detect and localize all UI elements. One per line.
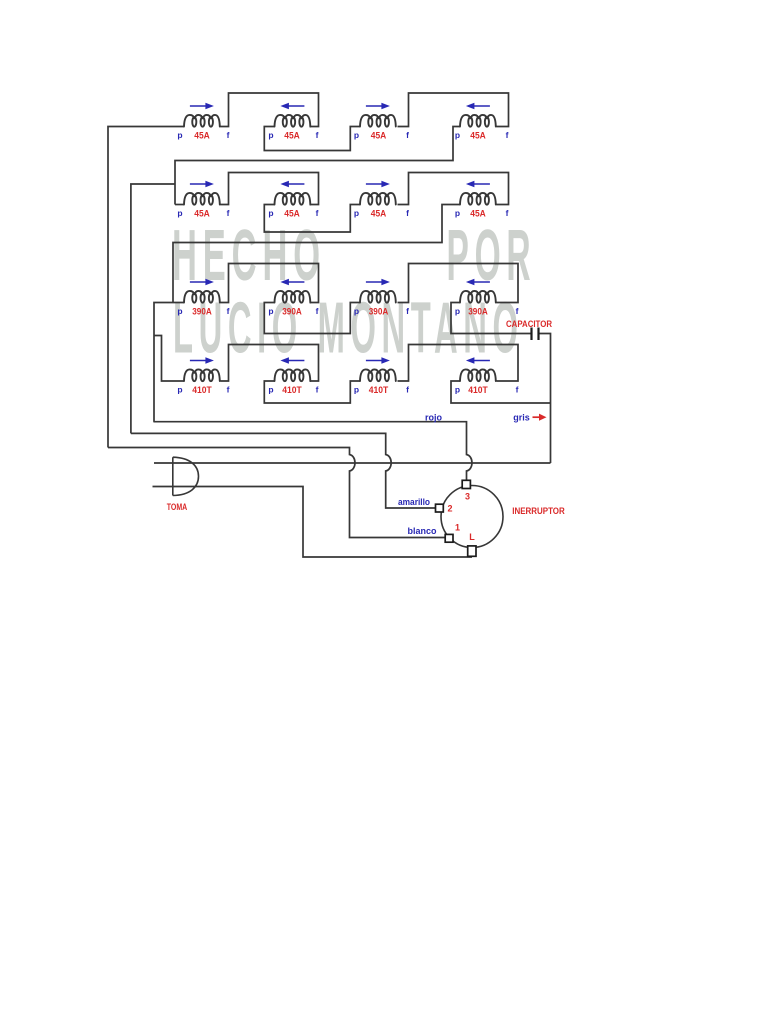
current direction arrow over L44 [466, 357, 490, 364]
svg-text:p: p [268, 208, 273, 218]
svg-text:2: 2 [447, 504, 452, 514]
wire: row2 coil4.p down-bus left and down to row3 coil1.p [173, 205, 460, 303]
wire: row1 coil1.f up and over to coil2.f [221, 93, 319, 127]
plug TOMA body [173, 457, 199, 495]
inductor coil row3 L31 (390A) [184, 291, 220, 303]
wire: row4 coil1.f up and over to coil2.f [221, 345, 319, 382]
inductor coil row2 L22 (45A) [275, 193, 311, 205]
current direction arrow over L14 [466, 103, 490, 110]
wire: capacitor right plate to gris vertical down to plug prong line [538, 334, 551, 464]
svg-text:390A: 390A [468, 306, 488, 316]
wire: row1 coil4.p down-bus left and down to row2 coil1.p [175, 127, 460, 205]
inductor coil row1 L11 (45A) [184, 115, 220, 127]
current direction arrow over L23 [366, 181, 390, 188]
wire: row2 coil1 baseline lead [175, 204, 184, 206]
switch terminal 3 [462, 480, 470, 488]
svg-text:f: f [506, 208, 509, 218]
svg-text:rojo: rojo [425, 413, 443, 423]
svg-text:3: 3 [465, 492, 470, 502]
svg-text:f: f [316, 208, 319, 218]
inductor coil row4 L43 (410T) [360, 369, 396, 381]
svg-text:amarillo: amarillo [398, 497, 430, 507]
capacitor C1 plates [532, 328, 539, 341]
svg-text:INERRUPTOR: INERRUPTOR [512, 506, 565, 516]
wire: row3/row4 junction stub to row4 coil1.p [154, 336, 184, 382]
wire: row3 coil2.p down-under to coil3.p [264, 303, 360, 334]
current direction arrow over L32 [280, 279, 304, 286]
svg-text:f: f [316, 384, 319, 394]
svg-text:p: p [354, 208, 359, 218]
svg-text:HECHO: HECHO [172, 215, 326, 295]
inductor coil row1 L14 (45A) [460, 115, 496, 127]
svg-text:f: f [516, 384, 519, 394]
svg-text:410T: 410T [369, 385, 389, 395]
svg-text:gris: gris [513, 413, 530, 423]
svg-text:45A: 45A [371, 208, 387, 218]
svg-text:f: f [316, 306, 319, 316]
current direction arrow over L34 [466, 279, 490, 286]
wire: row3 coil1.f up and over to coil2.f [221, 264, 319, 303]
current direction arrow over L42 [280, 357, 304, 364]
inductor coil row3 L32 (390A) [275, 291, 311, 303]
wire: row1 left lead from coil1.p to left vertical [108, 127, 184, 448]
svg-text:p: p [177, 384, 182, 394]
wire: amarillo line from left vertical to switch terminal 2 with hop [131, 433, 436, 508]
svg-text:CAPACITOR: CAPACITOR [506, 319, 552, 329]
svg-text:410T: 410T [192, 385, 212, 395]
svg-text:410T: 410T [468, 385, 488, 395]
svg-text:390A: 390A [282, 306, 302, 316]
svg-text:p: p [354, 384, 359, 394]
svg-text:p: p [177, 306, 182, 316]
svg-text:p: p [455, 384, 460, 394]
svg-text:p: p [455, 306, 460, 316]
switch terminal 2 [436, 504, 444, 512]
wire: row2 coil2.p down-under to coil3.p [264, 205, 360, 233]
svg-text:390A: 390A [369, 306, 389, 316]
svg-text:f: f [506, 130, 509, 140]
inductor coil row4 L44 (410T) [460, 369, 496, 381]
wire: row3 coil1 baseline lead and drop to rojo corner [154, 303, 184, 422]
current direction arrow over L33 [366, 279, 390, 286]
svg-text:L: L [469, 532, 475, 542]
wire: row3 coil3.f up and over to coil4.f [398, 264, 519, 303]
inductor coil row2 L23 (45A) [360, 193, 396, 205]
svg-text:p: p [268, 384, 273, 394]
current direction arrow over L22 [280, 181, 304, 188]
svg-text:45A: 45A [284, 130, 300, 140]
current direction arrow over L41 [190, 357, 214, 364]
svg-text:POR: POR [447, 215, 537, 296]
current direction arrow over L24 [466, 181, 490, 188]
wire: plug bottom prong down and right to switch terminal L [153, 487, 473, 558]
wire: blanco line from left vertical to switch terminal 1 with hop [108, 448, 445, 538]
svg-text:45A: 45A [371, 130, 387, 140]
svg-text:45A: 45A [470, 130, 486, 140]
wire: row2 coil3.f up and over to coil4.f [398, 173, 509, 205]
svg-text:p: p [268, 130, 273, 140]
svg-text:f: f [406, 384, 409, 394]
svg-text:1: 1 [455, 523, 460, 533]
svg-text:f: f [227, 208, 230, 218]
svg-text:f: f [406, 208, 409, 218]
current direction arrow over L12 [280, 103, 304, 110]
current direction arrow over L31 [190, 279, 214, 286]
switch INERRUPTOR body circle [441, 486, 503, 548]
svg-text:f: f [406, 306, 409, 316]
wire: rojo line from left vertical to switch terminal 3 with hop [153, 422, 472, 481]
svg-text:45A: 45A [470, 208, 486, 218]
wire: row4 coil2.p down-under to coil3.p [264, 381, 360, 403]
svg-text:f: f [406, 130, 409, 140]
wire: row1 coil2.p down-under to coil3.p [264, 127, 360, 151]
current direction arrow over L13 [366, 103, 390, 110]
inductor coil row2 L21 (45A) [184, 193, 220, 205]
inductor coil row3 L33 (390A) [360, 291, 396, 303]
svg-text:p: p [354, 306, 359, 316]
svg-text:LUCIO MONTANO: LUCIO MONTANO [173, 287, 524, 368]
svg-text:45A: 45A [284, 208, 300, 218]
svg-text:p: p [455, 208, 460, 218]
svg-text:f: f [227, 306, 230, 316]
wire: row2 coil1.f up and over to coil2.f [221, 173, 319, 205]
svg-text:390A: 390A [192, 306, 212, 316]
wire: row4 coil3.f up and over to coil4.f [398, 345, 519, 382]
svg-text:p: p [268, 306, 273, 316]
svg-text:f: f [227, 384, 230, 394]
current direction arrow over L11 [190, 103, 214, 110]
svg-text:f: f [316, 130, 319, 140]
current direction arrow over L43 [366, 357, 390, 364]
svg-text:TOMA: TOMA [167, 502, 188, 512]
switch terminal 1 [445, 534, 453, 542]
inductor coil row1 L12 (45A) [275, 115, 311, 127]
inductor coil row1 L13 (45A) [360, 115, 396, 127]
wire: row3 coil4.p down to capacitor left plate [451, 303, 532, 334]
svg-text:f: f [227, 130, 230, 140]
inductor coil row3 L34 (390A) [460, 291, 496, 303]
svg-text:410T: 410T [282, 385, 302, 395]
switch terminal L [468, 546, 476, 556]
svg-text:45A: 45A [194, 130, 210, 140]
wire: row4 coil4.p down-bus right to gris vertical [451, 381, 551, 403]
inductor coil row2 L24 (45A) [460, 193, 496, 205]
svg-text:p: p [177, 208, 182, 218]
svg-text:p: p [455, 130, 460, 140]
gris direction arrow [533, 414, 547, 421]
svg-text:p: p [354, 130, 359, 140]
svg-text:p: p [177, 130, 182, 140]
current direction arrow over L21 [190, 181, 214, 188]
wire: plug top prong line to gris vertical [154, 462, 551, 464]
inductor coil row4 L41 (410T) [184, 369, 220, 381]
svg-text:f: f [516, 306, 519, 316]
svg-text:45A: 45A [194, 208, 210, 218]
wire: row2 junction tap to left vertical [131, 184, 175, 433]
svg-text:blanco: blanco [408, 526, 437, 536]
wire: row1 coil3.f up and over to coil4.f [398, 93, 509, 127]
inductor coil row4 L42 (410T) [275, 369, 311, 381]
